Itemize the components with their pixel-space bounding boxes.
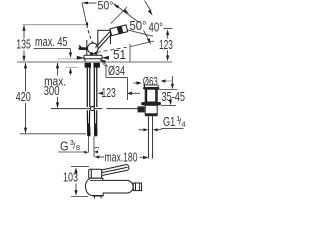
svg-text:51: 51 <box>113 48 126 62</box>
svg-text:300: 300 <box>44 84 60 98</box>
svg-text:8: 8 <box>76 143 80 152</box>
svg-text:103: 103 <box>63 171 78 185</box>
svg-text:40°: 40° <box>149 21 164 35</box>
svg-text:G1: G1 <box>163 115 175 129</box>
svg-text:35-45: 35-45 <box>162 90 186 104</box>
svg-text:50°: 50° <box>98 1 114 13</box>
svg-text:G: G <box>60 139 69 153</box>
svg-text:Ø34: Ø34 <box>108 64 125 78</box>
svg-text:135: 135 <box>16 38 31 52</box>
svg-text:420: 420 <box>16 90 31 104</box>
svg-text:max. 45: max. 45 <box>35 35 68 49</box>
svg-text:123: 123 <box>159 38 173 52</box>
svg-text:Ø63: Ø63 <box>143 77 158 89</box>
svg-text:max.180: max.180 <box>105 151 138 165</box>
svg-text:123: 123 <box>102 86 116 100</box>
svg-text:4: 4 <box>182 119 186 128</box>
